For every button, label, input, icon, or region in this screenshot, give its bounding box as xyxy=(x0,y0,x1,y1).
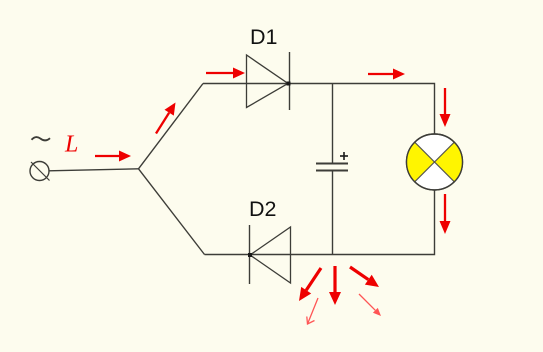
diode D2 triangle xyxy=(250,227,291,283)
current arrow A2 (up-slope) xyxy=(156,103,176,134)
lamp left yellow sector xyxy=(406,142,434,182)
svg-text:D1: D1 xyxy=(250,25,277,49)
capacitor bottom plate xyxy=(316,170,348,172)
current arrow A1 (input) xyxy=(95,151,131,162)
lamp circle outline redraw xyxy=(407,134,463,190)
capacitor polarity plus sign xyxy=(340,152,348,160)
svg-text:D2: D2 xyxy=(249,197,276,221)
wire: junction up-slope to top rail xyxy=(139,84,204,169)
AC source terminal circle xyxy=(30,162,49,181)
wire: bottom rail xyxy=(205,191,435,255)
current arrow A9 (fan right) xyxy=(350,267,379,287)
current arrow A7 (fan left) xyxy=(299,268,321,301)
wire: top rail xyxy=(203,84,435,135)
diode D2 junction dot xyxy=(248,253,252,257)
svg-text:L: L xyxy=(64,132,78,158)
AC tilde symbol xyxy=(32,137,51,140)
diode D1 junction dot xyxy=(287,82,291,86)
current arrow A4 (after D1) xyxy=(368,69,405,80)
wire: capacitor bottom lead xyxy=(332,171,334,255)
wire: junction down-slope to bottom rail xyxy=(139,169,205,255)
current arrow A8 (fan middle) xyxy=(329,266,341,305)
lamp X stroke 1 xyxy=(415,142,455,182)
capacitor top plate xyxy=(316,163,348,165)
current arrow A6 (out of lamp) xyxy=(440,194,451,234)
lamp circle xyxy=(407,134,463,190)
current arrow A11 (thin fan right) xyxy=(359,294,381,316)
wire: capacitor top lead xyxy=(332,84,334,164)
lamp X stroke 2 xyxy=(415,142,455,182)
lamp right yellow sector xyxy=(435,142,463,182)
current arrow A3 (before D1) xyxy=(206,68,245,79)
wire: source to junction xyxy=(49,169,139,171)
terminal diagonal stroke xyxy=(31,162,50,181)
diode D1 cathode bar xyxy=(289,52,291,110)
current arrow A10 (thin fan left, open head) xyxy=(307,298,318,324)
current arrow A5 (into lamp) xyxy=(440,88,451,127)
diode D2 cathode bar xyxy=(249,225,251,284)
diode D1 triangle xyxy=(247,55,289,108)
